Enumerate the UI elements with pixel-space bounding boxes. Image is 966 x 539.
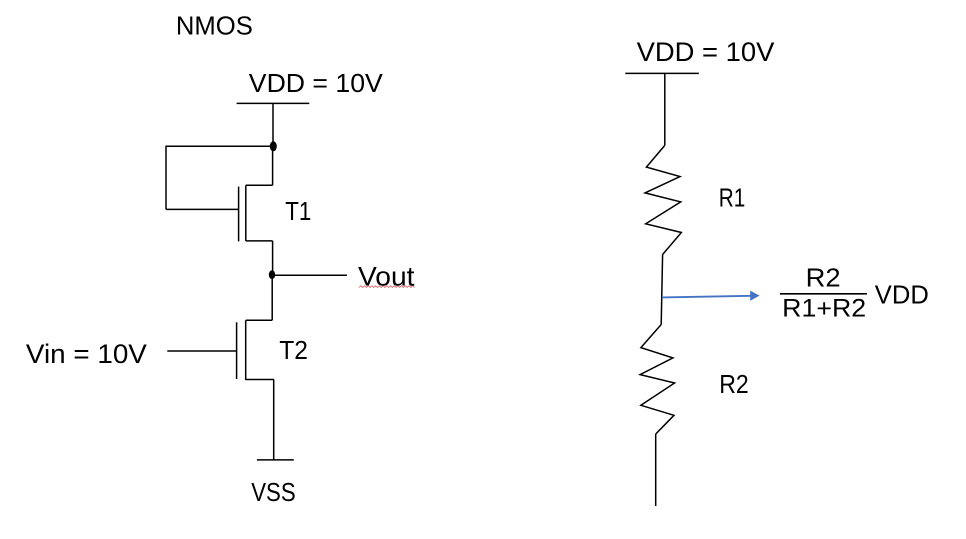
svg-text:R2: R2 [806, 262, 841, 292]
svg-text:R2: R2 [719, 369, 749, 399]
svg-text:Vout: Vout [358, 261, 415, 291]
svg-text:VDD = 10V: VDD = 10V [249, 68, 384, 98]
svg-text:NMOS: NMOS [176, 12, 253, 40]
svg-text:VSS: VSS [251, 477, 296, 507]
svg-text:VDD = 10V: VDD = 10V [637, 37, 775, 67]
svg-text:T1: T1 [285, 196, 311, 226]
svg-text:T2: T2 [279, 335, 308, 365]
svg-text:Vin = 10V: Vin = 10V [26, 339, 147, 369]
svg-text:R1: R1 [719, 182, 746, 212]
svg-text:R1+R2: R1+R2 [782, 295, 866, 323]
svg-text:VDD: VDD [875, 279, 929, 309]
